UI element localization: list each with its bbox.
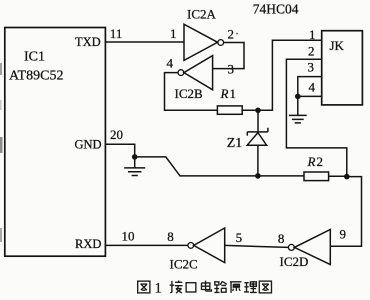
- svg-text:RXD: RXD: [75, 237, 101, 251]
- svg-text:IC2C: IC2C: [170, 257, 198, 272]
- svg-text:20: 20: [110, 127, 123, 142]
- node GND junction: [132, 154, 138, 160]
- wire GND pin20: [105, 144, 134, 157]
- wire JK pin4: [298, 95, 322, 97]
- svg-text:IC2B: IC2B: [175, 86, 204, 101]
- svg-text:4: 4: [167, 56, 174, 71]
- wire JK pin3: [298, 77, 322, 97]
- resistor R2: [304, 172, 329, 181]
- svg-text:1: 1: [155, 281, 162, 297]
- hanzi lu (circuit): [214, 281, 226, 292]
- svg-text:R: R: [220, 86, 229, 101]
- wire junction up to JK pin2: [286, 59, 346, 176]
- svg-text:1: 1: [309, 27, 316, 42]
- svg-text:IC2D: IC2D: [280, 254, 309, 269]
- svg-text:74HC04: 74HC04: [253, 1, 299, 16]
- svg-text:JK: JK: [330, 38, 345, 53]
- caption: hand-drawn hanzi 图1 接口电路原理图: [138, 280, 272, 296]
- hanzi li (principle): [244, 282, 257, 293]
- hanzi yuan (original): [230, 282, 242, 293]
- connector JK box: [322, 31, 363, 105]
- node R1/Z1/JK1 junction: [255, 108, 261, 114]
- ground symbol (JK): [289, 96, 307, 123]
- wire IC2C to IC2D: [225, 245, 289, 247]
- hanzi dian (electric): [201, 281, 211, 291]
- hanzi tu (figure): [138, 281, 150, 293]
- IC2B output bubble: [178, 70, 184, 76]
- svg-text:8: 8: [278, 231, 285, 246]
- node Z1 bottom junction: [255, 173, 261, 179]
- ground symbol (GND pin): [124, 157, 145, 176]
- wire RXD pin10 to IC2C: [105, 244, 187, 246]
- inverter IC2D: [288, 244, 294, 250]
- svg-text:4: 4: [309, 80, 316, 95]
- inverter IC2B triangle: [184, 56, 213, 90]
- svg-text:IC1: IC1: [24, 50, 45, 65]
- op-amp U IC2A inverter triangle: [184, 24, 218, 60]
- IC2A output bubble: [218, 40, 224, 46]
- svg-text:11: 11: [110, 26, 123, 41]
- hanzi jie (interface): [170, 280, 183, 293]
- wire TXD pin11 to IC2A input: [105, 41, 184, 43]
- hanzi tu (figure): [259, 281, 271, 293]
- wire GND node to Z1 bottom and R2: [135, 157, 304, 176]
- svg-text:8: 8: [167, 229, 174, 244]
- node JK pin3/4 junction: [295, 94, 301, 100]
- svg-text:TXD: TXD: [75, 35, 101, 49]
- svg-text:2: 2: [228, 27, 235, 42]
- resistor R1: [217, 106, 242, 114]
- wire IC2B output down to R1: [165, 73, 218, 111]
- wire R1 to JK pin1: [242, 40, 322, 110]
- svg-text:9: 9: [340, 227, 347, 242]
- node R2 right junction: [344, 174, 350, 180]
- svg-text:1: 1: [170, 26, 177, 41]
- svg-text:3: 3: [308, 60, 315, 75]
- svg-text:3: 3: [228, 62, 235, 77]
- svg-text:1: 1: [230, 86, 237, 101]
- svg-text:R: R: [307, 154, 316, 169]
- wire junction right down to IC2D pin9: [330, 177, 361, 247]
- scan smudge left edge: [0, 63, 2, 75]
- svg-text:5: 5: [236, 230, 243, 245]
- svg-text:AT89C52: AT89C52: [9, 69, 63, 84]
- zener diode Z1: [257, 110, 259, 131]
- svg-text:2: 2: [308, 44, 315, 59]
- hanzi kou (port): [186, 283, 196, 292]
- wire R2 right to junction: [329, 175, 347, 177]
- svg-text:Z1: Z1: [227, 136, 243, 151]
- inverter IC2C: [188, 243, 194, 249]
- svg-text:10: 10: [122, 229, 135, 244]
- svg-text:GND: GND: [75, 138, 102, 152]
- svg-text:2: 2: [317, 154, 324, 169]
- wire IC2A output wrap to IC2B input: [213, 43, 244, 69]
- svg-text:IC2A: IC2A: [187, 7, 217, 22]
- IC1 AT89C52 box: [5, 28, 106, 257]
